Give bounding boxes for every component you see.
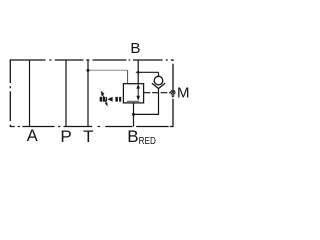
drain line horizontal (thin grey, from T to valve top) bbox=[88, 69, 128, 71]
valve body U1 (square) bbox=[123, 84, 143, 103]
check valve lower line with elbow to B_RED junction bbox=[134, 89, 159, 115]
sandwich plate boundary top (dash-dot) bbox=[10, 60, 173, 83]
check valve upper stub bbox=[158, 72, 160, 76]
junction dot on B_RED line bbox=[132, 113, 135, 116]
sandwich plate boundary bottom (dash-dot) bbox=[18, 126, 169, 128]
spring end block b bbox=[119, 97, 121, 102]
spring bar 1 bbox=[100, 97, 103, 102]
svg-text:P: P bbox=[60, 127, 71, 146]
spring end block a bbox=[115, 97, 118, 102]
svg-text:B: B bbox=[130, 40, 140, 57]
port line B_RED (from valve to bottom boundary) bbox=[133, 103, 135, 127]
check valve seat V bbox=[152, 83, 165, 88]
svg-text:T: T bbox=[83, 127, 93, 146]
check valve top line (to B junction) bbox=[138, 71, 158, 73]
arrowhead below gauge port (points down) bbox=[171, 95, 175, 97]
check valve ball (circle) bbox=[154, 76, 163, 85]
valve internal arrowhead down bbox=[136, 96, 140, 101]
svg-text:M: M bbox=[177, 85, 190, 102]
port line B (from top boundary to valve) bbox=[137, 60, 139, 84]
adjustment arrow diagonal line bbox=[103, 95, 107, 105]
gauge pilot line to M (dashed) bbox=[144, 92, 171, 94]
port line A bbox=[29, 60, 31, 127]
valve internal arrow shaft bbox=[137, 86, 139, 99]
sandwich plate boundary right (dash-dot) bbox=[170, 64, 173, 127]
flow arrowhead at B junction (points left) bbox=[136, 71, 140, 75]
port line P bbox=[65, 60, 67, 127]
spring segment small mark bbox=[106, 97, 107, 101]
sandwich plate boundary left (dash-dot) bbox=[10, 86, 14, 126]
spring bar 2 bbox=[103, 97, 105, 102]
adjustment arrowhead top-left bbox=[101, 91, 105, 96]
junction dot on T line bbox=[87, 69, 90, 72]
port line T bbox=[87, 60, 89, 127]
gauge port symbol (circle with X) bbox=[171, 90, 175, 94]
valve internal seat bar bbox=[127, 100, 139, 102]
valve internal arrowhead up bbox=[136, 84, 140, 89]
adjustment arrowhead bottom-right bbox=[105, 102, 108, 106]
svg-text:A: A bbox=[27, 127, 38, 145]
spring arrow triangle (points left) bbox=[107, 97, 112, 102]
drain line vertical (down into valve top) bbox=[127, 70, 129, 84]
